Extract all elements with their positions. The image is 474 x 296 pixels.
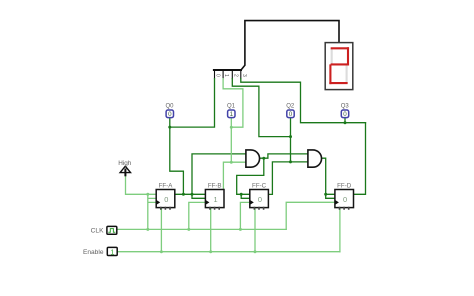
svg-text:1: 1	[223, 74, 229, 77]
wire from High to FF-A J	[126, 175, 157, 194]
svg-text:High: High	[118, 160, 132, 167]
wire AND2 output to FF-D J/K	[322, 158, 335, 198]
svg-text:2: 2	[232, 74, 238, 77]
junction dots (dark green nets)	[168, 121, 346, 196]
segment B (active)	[347, 48, 349, 64]
flip-flop FF-D	[335, 182, 354, 209]
svg-text:FF-D: FF-D	[337, 182, 352, 189]
clock CLK1	[91, 226, 117, 234]
wire Q1 to splitter leg1	[223, 79, 243, 128]
segment C (inactive)	[346, 65, 348, 82]
svg-text:FF-C: FF-C	[252, 182, 267, 189]
wire bus from splitter to display	[241, 21, 339, 70]
svg-text:0: 0	[168, 111, 172, 118]
probe Q0	[165, 103, 174, 118]
svg-text:Enable: Enable	[83, 249, 104, 256]
power High P1	[118, 160, 132, 176]
wire Q2 probe riser	[290, 118, 292, 162]
svg-text:Q1: Q1	[227, 103, 236, 109]
flip-flop FF-A	[156, 182, 175, 209]
probe Q1	[227, 103, 236, 118]
svg-text:0: 0	[343, 195, 347, 204]
svg-text:0: 0	[215, 74, 221, 77]
wire AND1 output routing to FF-C J/K	[237, 158, 264, 194]
and gate U2 (AND1)	[246, 150, 260, 167]
segment F (inactive)	[331, 49, 333, 63]
segment E (active)	[329, 65, 331, 83]
segment D (active)	[330, 82, 346, 84]
wire FF-A Q to FF-B J	[175, 193, 206, 195]
svg-text:CLK: CLK	[91, 228, 104, 235]
svg-text:Q2: Q2	[286, 103, 295, 109]
wire FF-C Q to AND2 bottom input (Q2 net)	[268, 162, 308, 195]
wire Enable line	[117, 251, 340, 253]
svg-text:0: 0	[343, 111, 347, 118]
wire FF-A K jumper / clock riser	[148, 194, 156, 229]
wire Q1 net: FF-B Q up and to AND1 bottom input	[223, 162, 246, 194]
svg-text:0: 0	[164, 195, 168, 204]
svg-text:FF-B: FF-B	[208, 182, 222, 189]
segment A (active)	[332, 47, 348, 49]
svg-text:1: 1	[230, 111, 234, 118]
svg-text:0: 0	[289, 111, 293, 118]
wire Q3 down to FF-D Q	[353, 123, 365, 195]
7-segment display U1	[325, 43, 353, 90]
flip-flop FF-C	[250, 182, 269, 209]
svg-text:3: 3	[241, 74, 247, 77]
svg-text:Q0: Q0	[165, 103, 174, 109]
svg-text:Q3: Q3	[341, 103, 350, 109]
junction dots (bright green nets)	[146, 126, 256, 254]
probe Q2	[286, 103, 295, 118]
wire CLK line	[117, 228, 286, 230]
wire Q0 riser and route to FF-A output line	[170, 118, 184, 195]
flip-flop FF-B	[205, 182, 224, 209]
wire Q3 probe stub	[344, 118, 346, 123]
svg-text:0: 0	[258, 195, 262, 204]
segment G (active)	[332, 63, 348, 65]
wire FF-D clock riser	[286, 202, 335, 229]
wire FF-C clock riser	[240, 202, 249, 229]
wire AND1 output to AND2 top input	[264, 154, 308, 158]
wire leg2 route to Q2 riser	[232, 79, 290, 137]
wire leg0 to Q0 riser (dark green, value 0)	[170, 79, 366, 199]
bright green wires (value 1)	[117, 79, 340, 252]
wire leg3 route (Q3 net)	[241, 79, 366, 123]
input pin Enable	[83, 247, 117, 256]
probe Q3	[341, 103, 350, 118]
svg-text:1: 1	[110, 249, 114, 256]
wire AND1 top input riser from Q0 line	[192, 154, 246, 198]
splitter SP1	[214, 70, 241, 79]
and gate U3 (AND2)	[308, 150, 322, 167]
svg-text:1: 1	[213, 195, 217, 204]
wire enable risers to FF bottoms	[161, 208, 340, 252]
svg-text:FF-A: FF-A	[159, 182, 174, 189]
wire FF-B clock riser	[189, 202, 206, 229]
